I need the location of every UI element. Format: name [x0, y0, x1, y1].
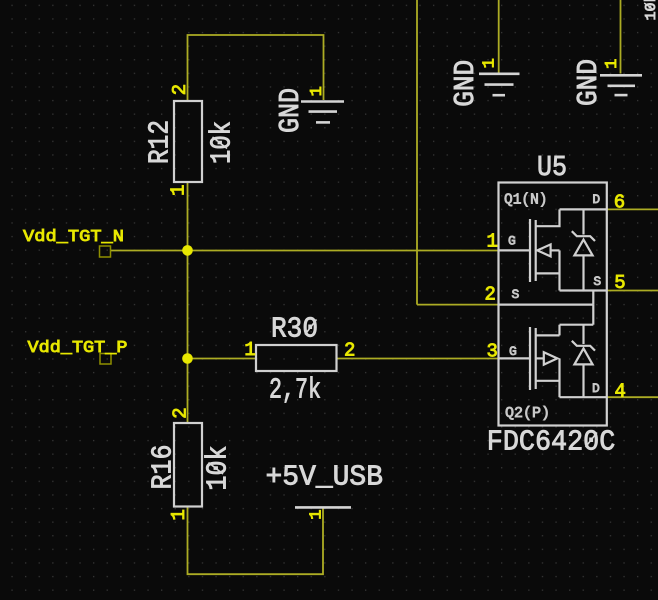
svg-text:1: 1	[244, 339, 255, 361]
svg-text:1: 1	[307, 510, 326, 520]
svg-text:3: 3	[487, 341, 498, 363]
wire R16 bottom to +5V_USB	[188, 507, 324, 575]
Q2 drain vertical	[558, 358, 560, 397]
R16 pin 1 number	[168, 509, 190, 520]
resistor R12 body	[174, 101, 202, 182]
transistor Q1 N-channel MOSFET	[499, 209, 607, 304]
svg-text:R16: R16	[147, 445, 180, 490]
Q1 body diode cathode bar	[572, 231, 595, 241]
Q2 drain stub	[536, 380, 560, 382]
wire U5 pin 5	[607, 290, 658, 292]
Q2 body diode triangle	[574, 348, 592, 364]
Q1 source line	[560, 289, 607, 291]
svg-text:D: D	[592, 381, 600, 396]
R30 zero slash	[305, 320, 317, 335]
svg-text:2,7k: 2,7k	[269, 374, 321, 407]
svg-text:R30: R30	[271, 313, 318, 346]
+5V_USB pin 1 number	[307, 510, 326, 520]
svg-text:S: S	[512, 287, 520, 302]
svg-text:U5: U5	[537, 151, 567, 184]
wire R12 bottom through junctions to R16 top	[187, 182, 189, 423]
svg-text:1: 1	[168, 184, 190, 195]
Q2 body arrow shaft	[536, 357, 544, 359]
GND3 text	[572, 59, 605, 106]
Q2 source horizontal	[560, 324, 594, 326]
Q1 gate bar	[529, 219, 531, 282]
svg-text:GND: GND	[274, 88, 307, 133]
Q1 channel bar	[535, 220, 537, 281]
svg-text:Q1(N): Q1(N)	[504, 192, 548, 209]
R12 pin 2 number	[169, 84, 191, 95]
resistor R12 ref text	[144, 120, 177, 164]
Q1 body arrow shaft	[551, 249, 560, 251]
svg-text:10k: 10k	[202, 446, 235, 491]
svg-text:1: 1	[481, 58, 500, 68]
Q1 drain stub	[536, 209, 560, 226]
Q1 gate lead	[499, 249, 530, 251]
junction node Vdd_TGT_N	[182, 245, 193, 256]
svg-text:GND: GND	[449, 60, 482, 107]
Q1 source stub	[536, 272, 560, 274]
GND1 text	[274, 88, 307, 133]
resistor R16 ref text	[147, 445, 180, 490]
svg-text:2: 2	[170, 407, 192, 418]
junction node Vdd_TGT_P	[182, 353, 193, 364]
component U5 dual MOSFET box	[499, 183, 607, 426]
wire top to U5 pin 2 vertical	[416, 0, 418, 305]
resistor R16 value 10k	[202, 446, 235, 491]
wire Vdd_TGT_N to U5 pin 1	[111, 250, 499, 252]
svg-text:GND: GND	[572, 59, 605, 106]
GND1 pin 1 number	[308, 86, 327, 96]
Q1-Q2 source link vertical	[592, 291, 594, 305]
resistor R16 body	[174, 423, 202, 507]
svg-text:10k: 10k	[206, 121, 239, 164]
svg-text:1: 1	[168, 509, 190, 520]
svg-text:+5V_USB: +5V_USB	[266, 460, 384, 493]
svg-text:R12: R12	[144, 120, 177, 164]
svg-text:1: 1	[603, 59, 622, 69]
ground symbol GND1	[301, 102, 344, 123]
wire U5 pin 4	[607, 396, 658, 398]
wire U5 pin 6	[607, 208, 658, 210]
label anchor square Vdd_TGT_N	[100, 246, 111, 257]
power symbol +5V_USB bar	[295, 506, 351, 509]
Q1 body diode triangle	[574, 240, 592, 256]
svg-text:2: 2	[344, 340, 355, 362]
Q2 body diode top lead	[582, 325, 584, 344]
svg-text:FDC6420C: FDC6420C	[487, 426, 616, 459]
ground symbol GND3	[600, 75, 642, 95]
Q2 source line	[499, 304, 594, 306]
wire R12 top to GND1	[188, 35, 324, 101]
ground symbol GND2	[479, 74, 520, 95]
svg-text:G: G	[508, 234, 516, 249]
R16 pin 2 number	[170, 407, 192, 418]
svg-text:2: 2	[169, 84, 191, 95]
svg-text:6: 6	[614, 191, 625, 213]
svg-text:D: D	[592, 192, 600, 207]
Q2 source vertical to stub	[558, 325, 560, 336]
svg-text:Vdd_TGT_P: Vdd_TGT_P	[28, 339, 128, 358]
svg-text:G: G	[509, 344, 517, 359]
wire GND3 drop	[620, 0, 622, 74]
Q2 source link down	[592, 305, 594, 325]
svg-text:5: 5	[614, 272, 625, 294]
wire to U5 pin 2 horizontal	[417, 304, 499, 306]
wire junction to R30 pin 1	[188, 358, 257, 360]
wire GND2 drop	[498, 0, 500, 73]
GND2 pin 1 number	[481, 58, 500, 68]
Q2 body diode bottom lead	[582, 364, 584, 397]
Q2 body diode cathode bar	[572, 341, 595, 351]
partial resistor value 10k top right corner	[643, 0, 658, 21]
svg-text:Q2(P): Q2(P)	[505, 405, 550, 422]
svg-text:1: 1	[487, 231, 498, 253]
Q1 drain line	[560, 208, 607, 210]
Q2 source stub	[536, 334, 560, 336]
GND3 pin 1 number	[603, 59, 622, 69]
Q1 body diode top lead	[582, 209, 584, 234]
svg-text:4: 4	[615, 381, 626, 403]
Q2 gate bar	[529, 327, 531, 390]
FDC6420C zero slash	[586, 433, 598, 448]
Q2 gate lead	[499, 357, 530, 359]
Q1 source vertical	[558, 250, 560, 290]
svg-text:S: S	[593, 274, 601, 289]
resistor R30 body	[256, 345, 337, 371]
svg-text:Vdd_TGT_N: Vdd_TGT_N	[23, 228, 124, 247]
resistor R12 value 10k	[206, 121, 239, 164]
R12 pin 1 number	[168, 184, 190, 195]
GND2 text	[449, 60, 482, 107]
Q1 body diode bottom lead	[582, 255, 584, 290]
label anchor square Vdd_TGT_P	[100, 354, 111, 365]
svg-text:1: 1	[308, 86, 327, 96]
Q2 channel bar	[535, 328, 537, 389]
wire R30 pin 2 to U5 pin 3	[337, 358, 499, 360]
Q1 body arrow head	[537, 244, 550, 256]
transistor Q2 P-channel MOSFET	[499, 305, 607, 398]
Q2 body arrow head	[544, 352, 558, 364]
svg-text:2: 2	[485, 284, 496, 306]
Q2 drain line	[560, 396, 607, 398]
